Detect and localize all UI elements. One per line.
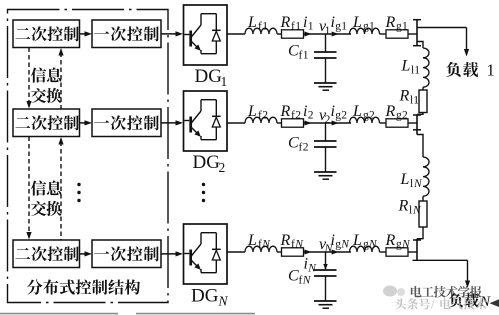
svg-text:R: R	[280, 103, 291, 120]
svg-text:N: N	[307, 262, 317, 274]
svg-text:N: N	[302, 274, 312, 286]
svg-text:2: 2	[341, 110, 347, 122]
svg-text:i: i	[331, 232, 335, 249]
svg-text:1: 1	[262, 21, 268, 33]
svg-text:DG: DG	[195, 66, 223, 87]
svg-text:L: L	[401, 58, 411, 75]
svg-text:2: 2	[303, 141, 309, 153]
svg-text:L: L	[352, 103, 362, 120]
svg-text:N: N	[261, 239, 271, 251]
svg-text:1: 1	[308, 21, 314, 33]
svg-text:DG: DG	[191, 286, 219, 307]
svg-text:i: i	[303, 14, 307, 31]
svg-text:1: 1	[369, 21, 375, 33]
svg-text:2: 2	[308, 110, 314, 122]
svg-text:1: 1	[341, 21, 347, 33]
svg-text:2: 2	[402, 110, 408, 122]
svg-text:1: 1	[295, 21, 301, 33]
svg-text:R: R	[385, 103, 396, 120]
svg-text:N: N	[368, 239, 378, 251]
svg-text:DG: DG	[193, 152, 221, 173]
svg-text:l1: l1	[411, 65, 420, 77]
svg-text:L: L	[247, 103, 257, 120]
svg-text:1: 1	[221, 74, 228, 89]
svg-text:i: i	[331, 103, 335, 120]
svg-text:N: N	[412, 205, 422, 217]
svg-text:l: l	[409, 205, 412, 217]
svg-text:R: R	[385, 14, 396, 31]
svg-text:L: L	[352, 14, 362, 31]
svg-text:2: 2	[219, 160, 226, 175]
svg-text:l: l	[410, 178, 413, 190]
svg-text:R: R	[398, 198, 409, 215]
svg-text:1: 1	[402, 21, 408, 33]
svg-text:l1: l1	[410, 95, 419, 107]
svg-text:i: i	[303, 103, 307, 120]
svg-text:N: N	[340, 239, 350, 251]
svg-text:L: L	[400, 171, 410, 188]
svg-text:R: R	[399, 88, 410, 105]
svg-text:2: 2	[262, 110, 268, 122]
svg-text:i: i	[304, 256, 308, 273]
svg-text:1: 1	[303, 49, 309, 61]
svg-text:N: N	[218, 294, 229, 309]
svg-text:N: N	[401, 239, 411, 251]
svg-text:R: R	[385, 232, 396, 249]
svg-text:2: 2	[295, 110, 301, 122]
svg-text:L: L	[247, 232, 257, 249]
svg-text:C: C	[288, 43, 299, 60]
svg-text:R: R	[280, 232, 291, 249]
svg-text:N: N	[413, 178, 423, 190]
svg-text:R: R	[280, 14, 291, 31]
svg-text:C: C	[288, 268, 299, 285]
svg-text:/: /	[431, 297, 435, 312]
svg-text:i: i	[331, 14, 335, 31]
svg-text:L: L	[247, 14, 257, 31]
svg-text:C: C	[288, 135, 299, 152]
svg-text:1: 1	[487, 61, 495, 80]
svg-text:L: L	[352, 232, 362, 249]
svg-text:2: 2	[369, 110, 375, 122]
svg-text:N: N	[294, 239, 304, 251]
